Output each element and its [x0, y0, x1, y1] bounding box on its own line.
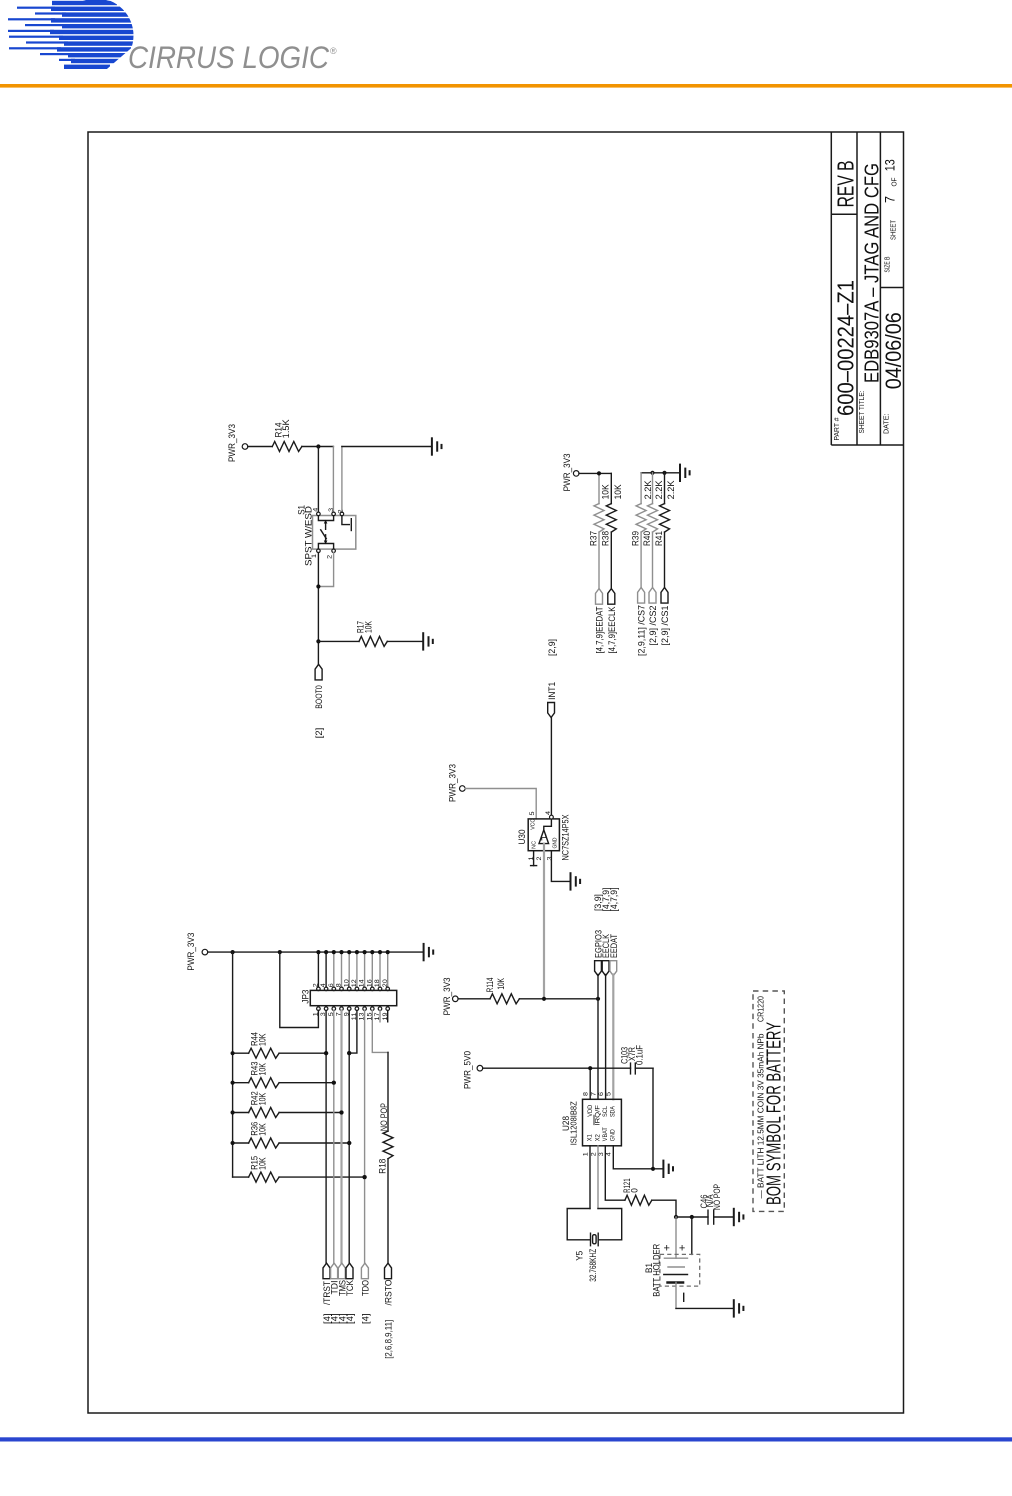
svg-text:14: 14	[359, 979, 366, 987]
resistor R40 2.2K	[648, 473, 658, 588]
node: R40 tap	[650, 471, 654, 475]
node: rail	[231, 1051, 235, 1055]
resistor R114 10K	[458, 978, 598, 1004]
svg-text:2: 2	[313, 983, 320, 987]
svg-text:7: 7	[883, 196, 898, 203]
resistor R38 10K	[606, 504, 616, 589]
svg-text:1.5K: 1.5K	[281, 419, 291, 438]
svg-text:[4,7,9]EEDAT: [4,7,9]EEDAT	[595, 606, 605, 653]
resistor R43 10K	[233, 1062, 334, 1088]
capacitor C103 0.1uF X7R	[620, 1045, 653, 1074]
resistor R44 10K	[233, 1032, 327, 1058]
svg-text:JP3: JP3	[300, 990, 310, 1004]
svg-text:[4,7,9]EECLK: [4,7,9]EECLK	[607, 607, 617, 654]
svg-text:4: 4	[545, 811, 552, 815]
port TDI	[330, 1263, 340, 1294]
svg-text:VBAT: VBAT	[602, 1127, 609, 1141]
svg-text:NC7SZ14P5X: NC7SZ14P5X	[561, 815, 571, 861]
svg-text:[2,9] /CS1: [2,9] /CS1	[660, 606, 670, 646]
svg-text:3: 3	[598, 1152, 605, 1156]
port BOOT0	[314, 664, 324, 709]
svg-text:CIRRUS LOGIC: CIRRUS LOGIC	[128, 39, 329, 75]
BOM note box	[753, 991, 786, 1211]
port EGPIO3	[593, 930, 603, 976]
wire pin 19 stub	[387, 1011, 389, 1022]
svg-text:SHEET TITLE:: SHEET TITLE:	[857, 391, 866, 434]
port EECLK	[607, 589, 617, 654]
svg-text:5: 5	[529, 811, 536, 815]
node: C46 branch	[690, 1215, 694, 1219]
svg-text:PWR_3V3: PWR_3V3	[442, 977, 452, 1015]
svg-text:/RSTO: /RSTO	[384, 1280, 394, 1306]
node: rail	[231, 1141, 235, 1145]
svg-text:SIZE B: SIZE B	[883, 257, 892, 273]
svg-text:[2,6,8,9,11]: [2,6,8,9,11]	[384, 1320, 394, 1359]
wire pin 15 to R18	[372, 1011, 388, 1053]
node: R15 to pin 13	[363, 1175, 367, 1179]
wire pin 4 of S1	[317, 447, 319, 513]
node: pin1/pin2 junction	[316, 584, 320, 588]
port TCK	[345, 1263, 355, 1296]
svg-text:R38: R38	[601, 531, 611, 546]
svg-text:PWR_5V0: PWR_5V0	[463, 1051, 473, 1089]
node: R44 to pin 3	[324, 1051, 328, 1055]
svg-text:X2: X2	[595, 1134, 602, 1141]
svg-text:CR1220: CR1220	[757, 996, 766, 1022]
power symbol PWR_3V3 (U30)	[448, 764, 466, 802]
svg-text:Y5: Y5	[575, 1251, 585, 1261]
svg-text:[4,7,9]: [4,7,9]	[609, 888, 619, 912]
svg-text:GND: GND	[552, 837, 558, 848]
svg-text:6: 6	[328, 983, 335, 987]
svg-text:®: ®	[330, 46, 337, 56]
node: rail	[231, 1110, 235, 1114]
svg-text:[2,9] /CS2: [2,9] /CS2	[648, 606, 658, 646]
svg-text:0: 0	[629, 1188, 639, 1193]
svg-text:[2]: [2]	[314, 728, 324, 739]
svg-text:NC: NC	[532, 841, 538, 849]
svg-text:NO POP: NO POP	[712, 1184, 722, 1210]
wire CS pulldown rail to ground	[641, 473, 680, 504]
wire TDI (pin 5)	[333, 1011, 335, 1264]
resistor R121 0	[622, 1178, 676, 1217]
svg-text:R40: R40	[642, 531, 652, 546]
connector JP3	[300, 979, 396, 1020]
svg-text:7: 7	[591, 1092, 598, 1096]
wire battery - to ground	[676, 1283, 734, 1309]
node: R114 / EGPIO3	[596, 997, 600, 1001]
resistor R17 10K	[318, 621, 423, 646]
svg-text:TCK: TCK	[345, 1280, 355, 1296]
svg-text:SDA: SDA	[610, 1106, 617, 1117]
wire U28 pin 1 X1	[589, 1146, 591, 1209]
svg-text:+: +	[679, 1243, 685, 1255]
svg-text:IRQ/F: IRQ/F	[595, 1105, 602, 1126]
power symbol PWR_3V3 (R114)	[442, 977, 458, 1015]
svg-text:DATE:: DATE:	[882, 414, 891, 435]
power symbol PWR_5V0	[463, 1051, 483, 1089]
port INT1	[547, 682, 557, 718]
wire S1 pins 1,2 to BOOT0 net	[318, 553, 333, 665]
resistor R18 NO POP	[377, 1052, 393, 1263]
wire PWR_3V3 to R37/R38	[579, 473, 611, 503]
wire shield pin to ground	[342, 447, 432, 513]
svg-text:3: 3	[547, 856, 554, 860]
svg-text:10K: 10K	[257, 1157, 267, 1170]
wire PWR_5V0 to VDD and C103	[483, 1068, 631, 1099]
svg-text:SCL: SCL	[602, 1106, 609, 1117]
svg-text:10K: 10K	[613, 484, 623, 499]
wire U30 pin 3 to ground	[551, 851, 570, 882]
svg-text:6: 6	[598, 1092, 605, 1096]
node: GND / C103	[651, 1167, 655, 1171]
svg-text:R39: R39	[630, 531, 640, 546]
node: R36 to pin 9	[347, 1141, 351, 1145]
svg-text:12: 12	[351, 979, 358, 987]
node: R14 / pin4 junction	[316, 444, 320, 448]
svg-text:10K: 10K	[257, 1063, 267, 1076]
node: R114 / U30 pin 2	[542, 997, 546, 1001]
port TDO	[361, 1263, 371, 1296]
svg-text:2: 2	[536, 856, 543, 860]
ground (C46)	[734, 1209, 744, 1225]
wire EECLK to U28 pin 6	[605, 975, 607, 1100]
svg-text:[4]: [4]	[345, 1314, 355, 1325]
wire pullup rail (left)	[232, 952, 234, 1177]
svg-text:10K: 10K	[257, 1123, 267, 1136]
port /CS2	[648, 588, 658, 646]
wire EGPIO3 to U28 pin 7	[597, 975, 599, 1100]
ground (S1 shield rail)	[432, 438, 442, 454]
svg-text:10: 10	[343, 979, 350, 987]
port /CS1	[660, 588, 670, 646]
ground (JP3 rail)	[424, 944, 434, 960]
ground (CS rail)	[680, 465, 690, 481]
wire PWR_3V3 to U30 pin 5	[465, 789, 536, 819]
svg-text:1: 1	[582, 1152, 589, 1156]
port EECLK (U28)	[601, 934, 611, 976]
port EEDAT (U28)	[609, 934, 619, 976]
svg-text:2.2K: 2.2K	[654, 480, 664, 499]
svg-text:[2,9]: [2,9]	[547, 639, 557, 656]
svg-text:10K: 10K	[601, 484, 611, 499]
svg-text:0.1uF: 0.1uF	[635, 1045, 645, 1065]
wire EEDAT to U28 pin 5	[612, 975, 614, 1100]
resistor R15 10K	[233, 1156, 365, 1182]
wire TCK (pin 9)	[348, 1011, 350, 1264]
svg-text:PWR_3V3: PWR_3V3	[186, 933, 196, 971]
svg-text:4: 4	[313, 507, 320, 511]
svg-text:13: 13	[883, 159, 898, 171]
svg-text:R18: R18	[377, 1159, 387, 1174]
capacitor C46 N/A NO POP	[699, 1184, 734, 1224]
svg-text:10K: 10K	[364, 621, 374, 633]
svg-text:TDO: TDO	[361, 1280, 371, 1296]
svg-text:R41: R41	[654, 531, 664, 546]
svg-text:BATT HOLDER: BATT HOLDER	[652, 1243, 662, 1296]
Cirrus Logic logo	[8, 0, 337, 75]
wire JP3 pin9-pin11 tie	[349, 1011, 357, 1054]
svg-text:20: 20	[382, 979, 389, 987]
wire U30 pin 1 no-connect stub	[531, 851, 537, 866]
crystal Y5 32.768KHZ	[567, 1209, 622, 1282]
wire JP3 pin 1 to 3V3	[280, 952, 319, 1027]
op-amp U30 NC7SZ14P5X inverter	[517, 811, 571, 861]
wire battery node to C46	[676, 1216, 708, 1218]
node: R41 tap	[662, 471, 666, 475]
wire U28 pin 3 VBAT	[605, 1146, 625, 1200]
svg-text:8: 8	[336, 983, 343, 987]
port EEDAT	[595, 589, 605, 654]
svg-text:[4]: [4]	[361, 1314, 371, 1325]
power symbol PWR_3V3 (S1 circuit)	[227, 424, 248, 462]
svg-text:ISL1208IB8Z: ISL1208IB8Z	[569, 1101, 579, 1145]
svg-text:2: 2	[327, 555, 334, 559]
blue footer bar	[0, 1437, 1012, 1441]
power symbol PWR_3V3 (JP3)	[186, 933, 208, 971]
wire PWR_3V3 rail over JP3	[208, 951, 424, 953]
svg-text:600–00224–Z1: 600–00224–Z1	[833, 280, 859, 416]
svg-text:GND: GND	[610, 1129, 617, 1141]
wire pin 3 of S1	[332, 447, 334, 513]
node: R17 junction	[316, 639, 320, 643]
IC U28 ISL1208IB8Z	[561, 1092, 621, 1156]
resistor R41 2.2K	[660, 473, 670, 588]
power symbol PWR_3V3 (EEPROM pullups)	[562, 453, 579, 491]
resistor R14 1.5K	[248, 419, 334, 451]
node: R42 to pin 7	[339, 1110, 343, 1114]
node: R43 to pin 5	[332, 1081, 336, 1085]
svg-text:2.2K: 2.2K	[643, 480, 653, 499]
svg-text:2: 2	[590, 1152, 597, 1156]
schematic sheet border frame	[88, 132, 904, 1413]
svg-text:BOOT0: BOOT0	[314, 685, 324, 709]
svg-text:PWR_3V3: PWR_3V3	[227, 424, 237, 462]
svg-text:2.2K: 2.2K	[666, 480, 676, 499]
wire U28 pin 4 GND	[613, 1146, 663, 1169]
svg-text:04/06/06: 04/06/06	[881, 312, 906, 389]
switch S1 SPST W/ESD	[296, 505, 355, 566]
ground (U28)	[663, 1161, 673, 1177]
svg-text:R114: R114	[485, 978, 495, 993]
svg-text:2: 2	[338, 509, 345, 513]
svg-text:PWR_3V3: PWR_3V3	[562, 453, 572, 491]
svg-text:5: 5	[606, 1092, 613, 1096]
wire U30 pin 2 input	[543, 844, 545, 999]
wires JP3 even pins to 3V3 rail	[316, 950, 390, 991]
port TMS	[337, 1263, 347, 1296]
svg-text:10K: 10K	[496, 978, 506, 990]
ground (U30 pin 3)	[571, 873, 581, 889]
junction dots (restamp over wires)	[324, 1051, 328, 1055]
svg-text:REV B: REV B	[833, 160, 859, 207]
resistor R37 10K	[594, 504, 604, 589]
svg-text:OF: OF	[890, 177, 899, 186]
title block	[831, 132, 903, 445]
ground (battery)	[734, 1300, 744, 1316]
svg-text:4: 4	[320, 983, 327, 987]
svg-text:+: +	[664, 1243, 670, 1255]
svg-text:16: 16	[366, 979, 373, 987]
svg-text:U30: U30	[517, 830, 527, 845]
svg-text:BOM SYMBOL FOR BATTERY: BOM SYMBOL FOR BATTERY	[764, 1022, 786, 1205]
svg-text:10K: 10K	[257, 1034, 267, 1047]
orange divider bar	[0, 84, 1012, 88]
node: R37 tap	[597, 471, 601, 475]
svg-text:X1: X1	[587, 1134, 594, 1141]
svg-text:VDD: VDD	[587, 1105, 594, 1117]
node: VDD tap	[588, 1066, 592, 1070]
svg-text:SHEET: SHEET	[889, 220, 898, 240]
resistor R39 2.2K	[636, 504, 646, 588]
svg-text:PWR_3V3: PWR_3V3	[448, 764, 458, 802]
port /CS7	[637, 588, 647, 657]
wire U28 pin 2 X2	[597, 1146, 599, 1209]
svg-text:SPST W/ESD: SPST W/ESD	[304, 505, 314, 566]
svg-text:PART #: PART #	[832, 417, 841, 441]
svg-text:[2,9,11] /CS7: [2,9,11] /CS7	[637, 605, 647, 656]
wire /TRST (pin 3)	[325, 1011, 327, 1264]
svg-text:10K: 10K	[257, 1093, 267, 1106]
wire pin 17 stub	[379, 1011, 381, 1022]
battery B1 BATT HOLDER	[644, 1217, 700, 1301]
node: pullup rail tap	[231, 950, 235, 954]
svg-text:R37: R37	[588, 531, 598, 546]
node: battery + node	[674, 1215, 678, 1219]
resistor R36 10K	[233, 1122, 350, 1148]
wire C103 to GND net	[652, 1068, 654, 1169]
wire INT1 to U30 pin 4	[550, 718, 552, 816]
wire TDO (pin 13)	[364, 1011, 366, 1264]
svg-text:EEDAT: EEDAT	[609, 934, 619, 958]
resistor R42 10K	[233, 1091, 342, 1117]
port /TRST	[322, 1263, 332, 1305]
svg-text:8: 8	[583, 1092, 590, 1096]
wire TMS (pin 7)	[340, 1011, 342, 1264]
node: pin1 loop tap	[278, 950, 282, 954]
svg-text:4: 4	[605, 1152, 612, 1156]
node: rail	[231, 1081, 235, 1085]
svg-text:INT1: INT1	[547, 682, 557, 700]
svg-text:VCC: VCC	[530, 819, 536, 830]
svg-text:18: 18	[374, 979, 381, 987]
port /RSTO	[384, 1263, 394, 1305]
svg-text:NO POP: NO POP	[379, 1103, 389, 1131]
ground (R17)	[423, 633, 433, 649]
svg-text:32.768KHZ: 32.768KHZ	[588, 1248, 598, 1281]
svg-text:3: 3	[328, 508, 335, 512]
